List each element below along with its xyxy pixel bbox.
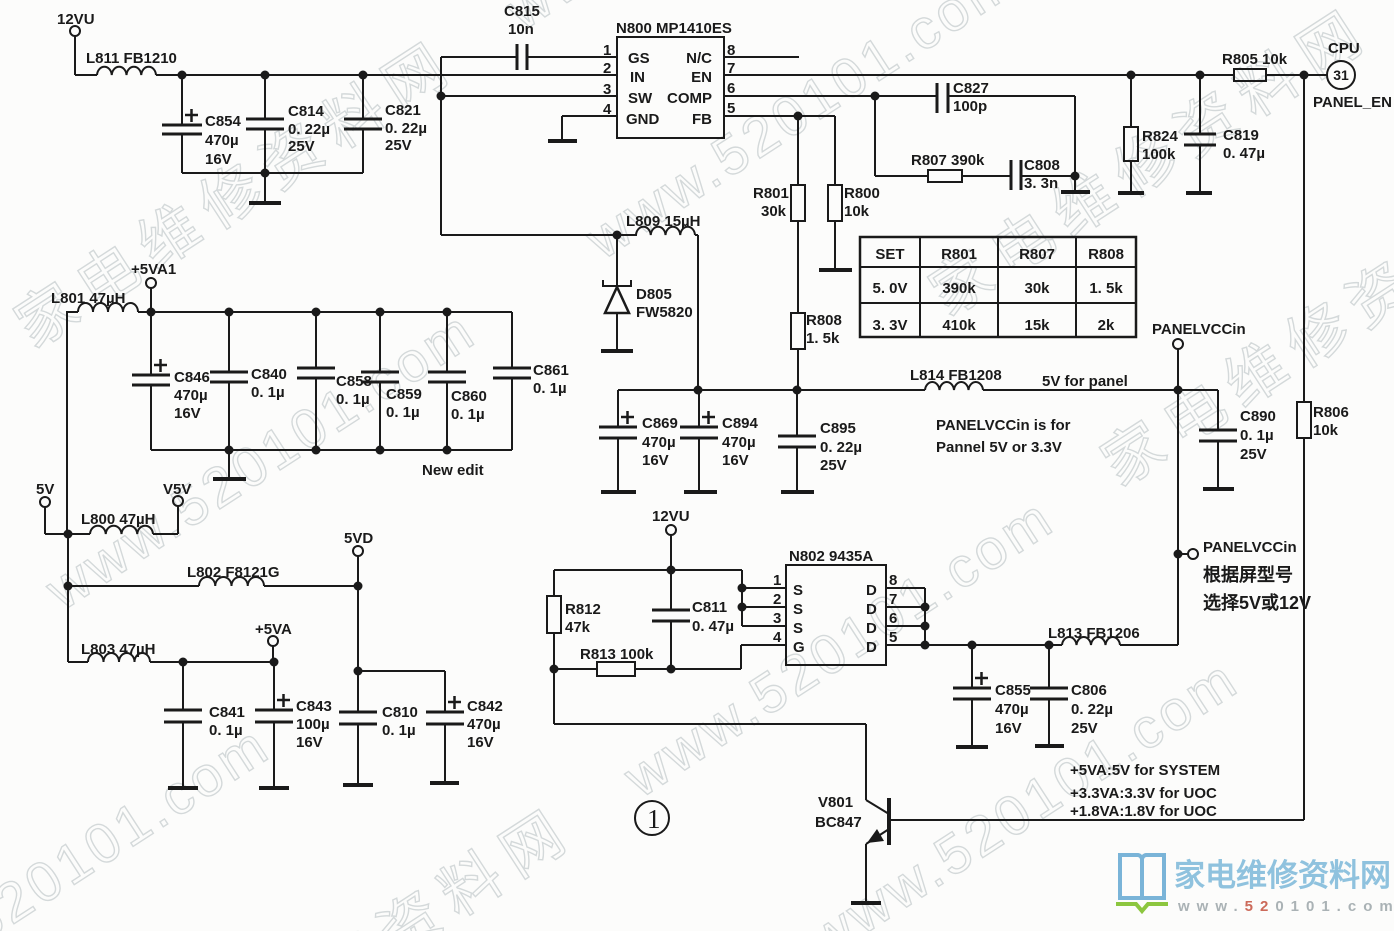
capacitor C855 label [995,682,1031,737]
svg-text:+5VA:5V for SYSTEM: +5VA:5V for SYSTEM [1070,762,1220,779]
svg-text:D: D [866,601,877,618]
wire N802 top rail [554,569,742,571]
svg-text:R813 100k: R813 100k [580,646,654,663]
node junction C854 [178,71,187,80]
capacitor C855 [953,645,991,745]
svg-text:470µ: 470µ [722,434,756,451]
svg-text:0. 1µ: 0. 1µ [336,391,370,408]
note sheet number 1 [635,801,669,835]
note PANELVCCin is for [936,417,1071,456]
ground IC N800 [548,139,577,143]
ground R824 [1118,191,1144,195]
resistor R800 [828,116,842,268]
svg-text:R812: R812 [565,601,601,618]
node junction PANEL_EN [1300,71,1309,80]
svg-text:PANELVCCin: PANELVCCin [1203,539,1297,556]
inductor L803 [68,653,274,662]
svg-text:0. 22µ: 0. 22µ [288,121,330,138]
capacitor C806 label [1071,682,1113,737]
svg-text:+5VA: +5VA [255,621,292,638]
svg-text:Pannel 5V or 3.3V: Pannel 5V or 3.3V [936,439,1062,456]
wire cap bottoms [182,172,363,174]
svg-text:C806: C806 [1071,682,1107,699]
svg-text:家电维修资料网: 家电维修资料网 [1174,858,1391,893]
svg-text:0. 1µ: 0. 1µ [209,722,243,739]
svg-text:0. 1µ: 0. 1µ [451,406,485,423]
watermark row 5 [0,638,1262,931]
node junction C819 [1196,71,1205,80]
resistor R812 label [565,601,601,636]
capacitor C814 label [288,103,330,155]
svg-text:S: S [793,620,803,637]
inductor L801 [66,303,151,535]
svg-text:V801: V801 [818,794,853,811]
capacitor C894 label [722,415,759,469]
svg-text:FB: FB [692,111,712,128]
svg-text:www.520101.com: www.520101.com [1177,898,1394,915]
capacitor C811 [652,570,690,669]
capacitor C806 [1030,645,1068,744]
svg-text:BC847: BC847 [815,814,862,831]
ground below C814 [249,173,281,203]
capacitor C841 label [209,704,245,739]
svg-text:0. 22µ: 0. 22µ [385,120,427,137]
svg-text:V5V: V5V [163,481,191,498]
resistor R813 [554,662,635,676]
svg-text:100p: 100p [953,98,987,115]
resistor R805 [1234,69,1266,81]
svg-text:IN: IN [630,69,645,86]
svg-text:+5VA1: +5VA1 [131,261,176,278]
svg-text:D805: D805 [636,286,672,303]
node junction C821 [359,71,368,80]
svg-text:C843: C843 [296,698,332,715]
inductor L802 [68,577,358,586]
svg-text:C890: C890 [1240,408,1276,425]
resistor R824 [1124,75,1138,191]
svg-text:+1.8VA:1.8V for UOC: +1.8VA:1.8V for UOC [1070,803,1217,820]
wire PANEL_EN vertical [1303,75,1305,820]
svg-text:D: D [866,620,877,637]
inductor L814 [925,382,983,390]
resistor R824 label [1142,128,1179,163]
ground C841 [168,786,198,790]
svg-text:C827: C827 [953,80,989,97]
svg-text:N802 9435A: N802 9435A [789,548,873,565]
node junction R824 [1127,71,1136,80]
svg-text:3. 3V: 3. 3V [872,317,907,334]
ground C843 [259,786,289,790]
svg-text:C854: C854 [205,113,242,130]
node junction C806 [1045,641,1054,650]
svg-text:D: D [866,639,877,656]
wire EN line pin7 to CPU [724,74,1234,76]
ground V801 emitter [851,901,881,905]
ground C855 [956,745,988,749]
svg-text:SET: SET [875,246,904,263]
node junction C895 [793,386,802,395]
wire cap bank bottom rail [151,449,512,451]
svg-text:N800 MP1410ES: N800 MP1410ES [616,20,732,37]
svg-text:16V: 16V [995,720,1022,737]
node junction bottom C859 [376,446,385,455]
wire PANELVCC vertical [1177,390,1179,645]
svg-text:5. 0V: 5. 0V [872,280,907,297]
node junction ground [261,169,270,178]
wire 12V input rail [75,74,97,76]
capacitor C854 label [205,113,242,168]
svg-text:选择5V或12V: 选择5V或12V [1203,592,1311,613]
svg-text:0. 47µ: 0. 47µ [1223,145,1265,162]
capacitor C860 label [451,388,487,423]
capacitor C861 label [533,362,569,397]
svg-text:410k: 410k [942,317,976,334]
node 5V terminal [40,497,68,534]
node junction SW [437,92,446,101]
node 5VD terminal [353,546,363,586]
node junction pin1 [738,584,747,593]
svg-text:C894: C894 [722,415,759,432]
svg-text:1: 1 [647,804,661,834]
svg-text:R807: R807 [1019,246,1055,263]
ground C808 [1061,176,1090,192]
svg-text:2: 2 [773,591,781,608]
wire to IC pin2 [156,74,617,76]
wire L809 to output [695,235,698,390]
svg-text:根据屏型号: 根据屏型号 [1203,564,1293,585]
capacitor C890 label [1240,408,1276,463]
svg-text:47k: 47k [565,619,591,636]
node junction L800 [64,530,73,539]
svg-text:S: S [793,582,803,599]
capacitor C846 label [174,369,210,422]
resistor R806 [1297,402,1311,438]
svg-text:1: 1 [773,572,781,589]
svg-text:31: 31 [1333,67,1349,83]
capacitor C808 [1011,160,1075,190]
svg-text:470µ: 470µ [642,434,676,451]
svg-text:4: 4 [773,629,782,646]
node PANELVCCin lower labels [1203,539,1311,613]
node +5VA1 terminal [146,278,156,312]
ground C869 [601,490,636,494]
wire PANELVCC to L813 [1120,644,1178,646]
capacitor C846 [132,312,170,450]
inductor L813 [1062,637,1120,645]
wire N802 D pins join [886,588,925,645]
node junction pin7 [921,603,930,612]
diode D805 label [636,286,693,321]
node junction pin5 [921,641,930,650]
svg-text:L802 F8121G: L802 F8121G [187,564,280,581]
wire N802 S pins feed [742,570,786,626]
node junction 12VU rail [667,566,676,575]
svg-text:3. 3n: 3. 3n [1024,175,1058,192]
svg-text:100k: 100k [1142,146,1176,163]
svg-text:L813 FB1206: L813 FB1206 [1048,625,1140,642]
svg-text:New edit: New edit [422,462,484,479]
svg-text:C860: C860 [451,388,487,405]
svg-text:L809 15µH: L809 15µH [626,213,701,230]
svg-text:30k: 30k [761,203,787,220]
capacitor C843 [255,662,293,786]
capacitor C895 label [820,420,862,474]
ground R800 [819,268,852,272]
svg-text:25V: 25V [1240,446,1267,463]
svg-text:L801 47µH: L801 47µH [51,290,126,307]
svg-text:2: 2 [603,60,611,77]
svg-text:GS: GS [628,50,650,67]
svg-text:EN: EN [691,69,712,86]
svg-text:10n: 10n [508,21,534,38]
svg-text:C815: C815 [504,3,540,20]
svg-text:PANEL_EN: PANEL_EN [1313,94,1392,111]
svg-text:12VU: 12VU [652,508,690,525]
node junction C811 bottom [667,665,676,674]
note +5VA voltages [1070,762,1220,820]
svg-text:3: 3 [603,81,611,98]
node junction C859 [376,308,385,317]
capacitor C815 [441,44,617,70]
wire pin8 N/C stub [724,56,799,58]
svg-text:1: 1 [603,42,611,59]
svg-text:C895: C895 [820,420,856,437]
svg-text:0. 22µ: 0. 22µ [820,439,862,456]
logo book base [1116,904,1168,911]
capacitor C819 label [1223,127,1265,162]
wire COMP branch down [875,96,928,176]
svg-text:10k: 10k [1313,422,1339,439]
svg-text:C841: C841 [209,704,245,721]
svg-text:470µ: 470µ [467,716,501,733]
svg-text:2k: 2k [1098,317,1115,334]
capacitor C869 [599,390,637,490]
node junction COMP [871,92,880,101]
svg-text:0. 47µ: 0. 47µ [692,618,734,635]
svg-text:CPU: CPU [1328,40,1360,57]
wire gate pin4 [635,645,786,669]
svg-text:1. 5k: 1. 5k [1089,280,1123,297]
ground C810 [343,783,373,787]
resistor R801 label [753,185,789,220]
capacitor C819 [1184,75,1216,191]
node junction pin2 [738,603,747,612]
resistor R801 [791,116,805,313]
node 12VU terminal [70,26,80,75]
resistor R808 [791,313,805,390]
svg-text:L803 47µH: L803 47µH [81,641,156,658]
wire R807 to C808 [962,175,1011,177]
table resistor options [860,237,1136,337]
IC N800 pin numbers right [727,42,735,117]
node 12VU lower terminal [666,525,676,570]
wire cap bank top rail [151,311,512,313]
svg-text:L811 FB1210: L811 FB1210 [86,50,177,67]
svg-text:7: 7 [889,591,897,608]
wire to C842 [358,671,445,712]
transistor V801 label [815,794,862,831]
svg-text:D: D [866,582,877,599]
node junction bottom C858 [312,446,321,455]
svg-text:390k: 390k [942,280,976,297]
svg-text:C846: C846 [174,369,210,386]
node junction C855 [968,641,977,650]
capacitor C843 label [296,698,332,751]
pin 4 GND wire [562,116,617,140]
svg-text:C808: C808 [1024,157,1060,174]
svg-text:0. 1µ: 0. 1µ [386,404,420,421]
svg-text:S: S [793,601,803,618]
svg-text:PANELVCCin: PANELVCCin [1152,321,1246,338]
wire 5V vertical [67,534,69,662]
resistor R812 [547,570,561,669]
svg-text:R808: R808 [806,312,842,329]
svg-text:C821: C821 [385,102,421,119]
svg-text:R801: R801 [941,246,977,263]
node CPU labels [1313,40,1392,111]
wire C827 right down [1074,96,1076,176]
svg-text:5: 5 [727,100,735,117]
svg-text:L814 FB1208: L814 FB1208 [910,367,1002,384]
svg-text:16V: 16V [205,151,232,168]
inductor L811 [97,67,156,75]
svg-text:R801: R801 [753,185,789,202]
svg-text:25V: 25V [288,138,315,155]
svg-text:12VU: 12VU [57,11,95,28]
svg-text:5V for panel: 5V for panel [1042,373,1128,390]
IC N800 pin names right [667,50,712,128]
node junction C860 [443,308,452,317]
capacitor C842 [426,696,464,781]
capacitor C808 label [1024,157,1060,192]
IC N802 pin names [793,582,877,656]
svg-text:C814: C814 [288,103,325,120]
svg-text:0. 1µ: 0. 1µ [1240,427,1274,444]
svg-text:R806: R806 [1313,404,1349,421]
svg-text:C811: C811 [692,599,727,616]
IC N802 pin numbers right [889,572,897,646]
logo book icon [1120,855,1164,898]
capacitor C858 [297,312,335,450]
svg-text:6: 6 [889,610,897,627]
node junction bottom C840 [225,446,234,455]
wire bootstrap vertical [440,57,442,235]
svg-text:G: G [793,639,805,656]
node junction C842 branch [354,667,363,676]
svg-text:25V: 25V [1071,720,1098,737]
node junction C858 [312,308,321,317]
node junction C846 [147,308,156,317]
node junction L809 left [613,231,622,240]
svg-text:16V: 16V [642,452,669,469]
svg-text:100µ: 100µ [296,716,330,733]
node junction C808 [1071,172,1080,181]
svg-text:25V: 25V [385,137,412,154]
svg-text:16V: 16V [467,734,494,751]
node junction rail right [1174,386,1183,395]
svg-text:COMP: COMP [667,90,712,107]
wire 5V rail [618,389,1178,391]
svg-text:C819: C819 [1223,127,1259,144]
svg-text:PANELVCCin is for: PANELVCCin is for [936,417,1071,434]
capacitor C858 label [336,373,372,408]
IC N802 pin numbers left [773,572,782,646]
wire gate line to V801 [554,669,866,800]
ground C842 [430,781,459,785]
capacitor C811 label [692,599,734,635]
resistor R807 [928,170,962,182]
svg-text:10k: 10k [844,203,870,220]
capacitor C859 [361,312,399,450]
wire SW to L809 [441,234,617,236]
transistor Q1 V801 BC847 [866,798,1304,901]
watermark row 1 [0,0,1394,494]
node +5VA terminal [268,636,278,662]
resistor R806 label [1313,404,1349,439]
svg-text:15k: 15k [1024,317,1050,334]
node junction C841 [179,658,188,667]
svg-text:C810: C810 [382,704,418,721]
wire R805 to CPU [1266,74,1327,76]
node PANELVCCin top terminal [1173,339,1183,390]
capacitor C810 [339,712,377,783]
svg-text:R808: R808 [1088,246,1124,263]
ground cap bank [213,450,246,479]
node junction FB [794,112,803,121]
svg-text:25V: 25V [820,457,847,474]
capacitor C894 [680,390,718,490]
capacitor C869 label [642,415,678,469]
capacitor C859 label [386,386,422,421]
svg-text:0. 1µ: 0. 1µ [533,380,567,397]
node V5V terminal [173,496,183,534]
svg-text:R824: R824 [1142,128,1179,145]
capacitor C861 [493,312,531,450]
watermark row 6 [0,912,1273,931]
node PANELVCCin lower terminal [1178,549,1198,559]
capacitor C842 label [467,698,503,751]
svg-text:3: 3 [773,610,781,627]
svg-text:R805 10k: R805 10k [1222,51,1288,68]
node CPU pin 31 [1327,61,1355,89]
node junction PANELVCCin lower [1174,550,1183,559]
ground C895 [781,490,814,494]
svg-text:5: 5 [889,629,897,646]
node junction C843 [270,658,279,667]
capacitor C827 label [953,80,989,115]
capacitor C840 label [251,366,287,401]
capacitor C815 label [504,3,540,38]
svg-text:C842: C842 [467,698,503,715]
resistor R800 label [844,185,880,220]
capacitor C895 [778,390,816,490]
capacitor C841 [164,662,202,786]
ground D805 [601,349,633,353]
capacitor C827 [937,83,1075,113]
svg-text:C861: C861 [533,362,569,379]
svg-text:L800 47µH: L800 47µH [81,511,156,528]
wire SW pin3 [441,95,617,97]
capacitor C814 [246,75,284,173]
svg-text:5V: 5V [36,481,54,498]
svg-text:GND: GND [626,111,660,128]
svg-text:R800: R800 [844,185,880,202]
node junction C814 [261,71,270,80]
svg-text:N/C: N/C [686,50,712,67]
svg-text:0. 22µ: 0. 22µ [1071,701,1113,718]
svg-text:R807 390k: R807 390k [911,152,985,169]
svg-text:30k: 30k [1024,280,1050,297]
